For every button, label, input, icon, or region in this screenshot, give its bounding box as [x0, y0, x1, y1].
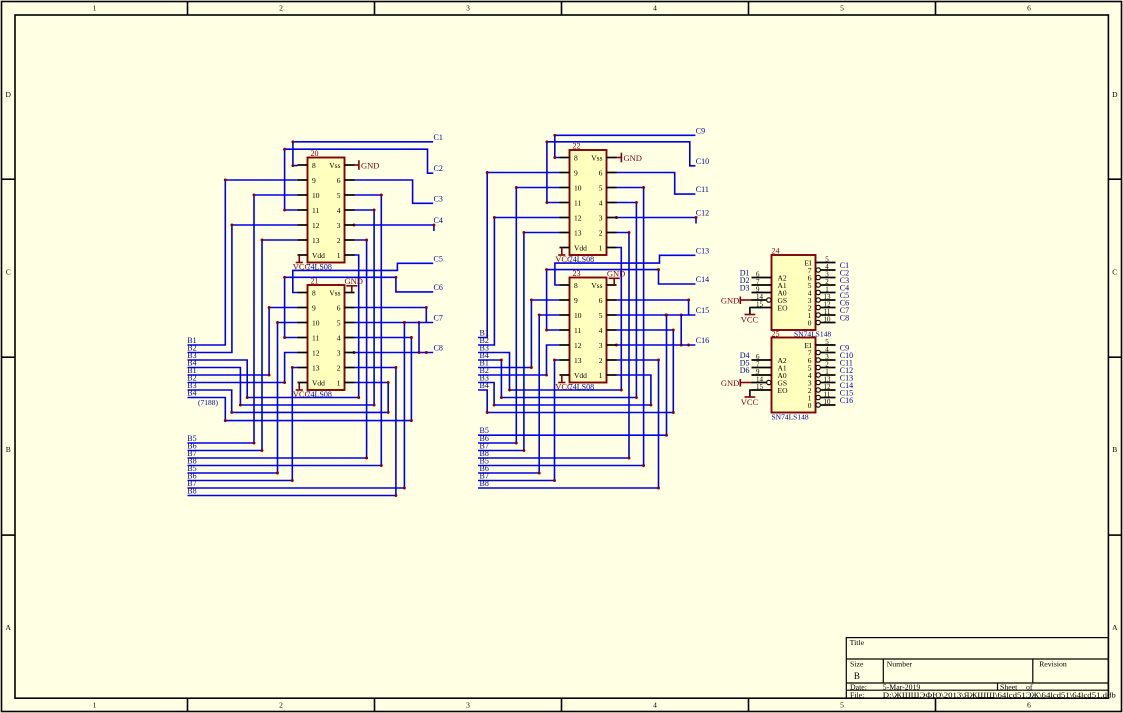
svg-text:5: 5 — [599, 184, 603, 193]
power port VCC at U25 EO — [741, 390, 759, 407]
svg-text:C10: C10 — [696, 157, 709, 166]
svg-text:9: 9 — [312, 304, 316, 313]
svg-text:22: 22 — [573, 142, 581, 151]
power port VCC at U20 Vdd — [293, 255, 311, 272]
IC U20 74LS08 (designator 20) — [298, 158, 355, 263]
svg-text:B: B — [6, 445, 11, 454]
wire net B2' to U21 pin 12 — [188, 353, 298, 384]
svg-text:23: 23 — [573, 269, 581, 278]
svg-text:2: 2 — [337, 236, 341, 245]
IC U23 74LS08 (designator 23) — [560, 278, 617, 383]
wire net B3' to U23 pin 1 — [478, 375, 652, 406]
svg-text:0: 0 — [808, 319, 812, 328]
wire net C4 from U20 pin 3 — [353, 224, 436, 231]
power port VCC at U22 Vdd — [555, 248, 573, 265]
svg-text:Vdd: Vdd — [574, 371, 587, 380]
wire net B4 to U22 pin 4 — [478, 201, 638, 399]
svg-text:12: 12 — [312, 221, 320, 230]
wire net C16 from U23 pin 3 — [615, 315, 695, 346]
svg-text:2: 2 — [279, 701, 283, 710]
svg-text:2: 2 — [279, 4, 283, 13]
svg-text:4: 4 — [337, 206, 341, 215]
svg-text:10: 10 — [574, 184, 582, 193]
wire net B1' to U23 pin 9 — [478, 299, 560, 369]
svg-text:C16: C16 — [696, 336, 709, 345]
svg-text:8: 8 — [574, 154, 578, 163]
svg-text:1: 1 — [93, 4, 97, 13]
IC U22 74LS08 (designator 22) — [560, 150, 617, 255]
power port VCC at U24 EO — [741, 308, 759, 325]
wire net B2 to U22 pin 12 — [478, 216, 560, 345]
wire net C9 from U22 pin 8 — [553, 134, 695, 159]
svg-text:Vss: Vss — [329, 161, 340, 170]
wire net C14 from U23 pin 11 — [545, 268, 695, 331]
svg-text:Vdd: Vdd — [574, 244, 587, 253]
svg-text:3: 3 — [599, 214, 603, 223]
svg-text:74LS08: 74LS08 — [307, 390, 332, 399]
svg-text:C8: C8 — [434, 344, 443, 353]
svg-text:25: 25 — [772, 330, 780, 339]
power port GND at U24 GS — [721, 296, 752, 306]
svg-text:5: 5 — [840, 701, 844, 710]
svg-text:C5: C5 — [434, 254, 443, 263]
svg-text:B: B — [1112, 445, 1117, 454]
svg-text:5: 5 — [840, 4, 844, 13]
wire net B5 to C15 node — [478, 314, 668, 437]
wire net B1 to U20 pin 9 — [188, 179, 298, 345]
svg-text:12: 12 — [574, 341, 582, 350]
svg-text:15: 15 — [756, 383, 764, 391]
svg-text:11: 11 — [574, 199, 581, 208]
wire net B2' to U23 pin 12 — [478, 345, 560, 376]
wire net C5 from U21 pin 8 — [293, 263, 433, 292]
svg-text:Revision: Revision — [1039, 660, 1067, 669]
svg-text:3: 3 — [337, 221, 341, 230]
svg-text:C8: C8 — [840, 314, 849, 323]
svg-text:6: 6 — [337, 176, 341, 185]
svg-text:6: 6 — [1027, 4, 1031, 13]
svg-text:EO: EO — [778, 304, 789, 313]
wire net B4 to U20 pin 4 — [188, 209, 376, 407]
power port GND at U23 Vss — [607, 269, 625, 285]
svg-text:1: 1 — [599, 244, 603, 253]
wire net C15 from U23 pins 6 and 5 — [617, 299, 696, 317]
svg-text:GND: GND — [361, 160, 379, 170]
wire net B5' to U21 pin 10 — [188, 321, 298, 474]
wire net B3' to U21 pin 1 — [188, 381, 390, 414]
svg-text:9: 9 — [312, 176, 316, 185]
svg-text:0: 0 — [808, 401, 812, 410]
svg-text:C: C — [6, 268, 11, 277]
svg-text:C1: C1 — [434, 133, 443, 142]
svg-text:2: 2 — [599, 229, 603, 238]
wire net B6 to U22 pin 10 — [478, 186, 560, 444]
svg-text:20: 20 — [311, 149, 319, 158]
wire net B5 to U20 pin 10 — [188, 194, 298, 445]
svg-text:D3: D3 — [740, 284, 750, 293]
encoder U24 SN74LS148 (designator 24) — [752, 255, 836, 330]
svg-text:12: 12 — [312, 349, 320, 358]
wire net C1 from U20 pin 8 — [291, 140, 433, 167]
wire net B5' to U22 pin 5 — [478, 186, 645, 467]
svg-text:Vss: Vss — [329, 289, 340, 298]
svg-text:13: 13 — [312, 364, 320, 373]
svg-text:C13: C13 — [696, 246, 709, 255]
svg-text:B4: B4 — [187, 389, 196, 398]
svg-text:10: 10 — [312, 319, 320, 328]
svg-text:File:: File: — [850, 690, 864, 699]
power port GND at U22 Vss — [617, 153, 642, 163]
wire net B7 to U20 pin 2 — [188, 239, 369, 460]
svg-text:4: 4 — [337, 334, 341, 343]
power port VCC at U21 Vdd — [293, 383, 311, 400]
wire net B7' to U23 pin 13 — [478, 359, 560, 482]
svg-text:D: D — [5, 90, 11, 99]
svg-text:8: 8 — [312, 289, 316, 298]
svg-text:11: 11 — [312, 334, 319, 343]
svg-text:8: 8 — [312, 161, 316, 170]
svg-text:C3: C3 — [434, 194, 443, 203]
svg-text:(7188): (7188) — [198, 398, 218, 407]
svg-text:11: 11 — [574, 326, 581, 335]
svg-text:3: 3 — [337, 349, 341, 358]
svg-text:VCC: VCC — [741, 314, 759, 324]
svg-text:B: B — [854, 671, 860, 681]
svg-text:5: 5 — [599, 311, 603, 320]
wire net B8' to U23 pin 2 — [478, 359, 660, 490]
svg-text:C6: C6 — [434, 283, 443, 292]
svg-text:24: 24 — [772, 247, 780, 256]
svg-text:C4: C4 — [434, 216, 443, 225]
svg-text:21: 21 — [311, 277, 319, 286]
svg-text:D: D — [1112, 90, 1118, 99]
svg-text:A: A — [5, 623, 11, 632]
svg-text:Vdd: Vdd — [312, 379, 325, 388]
power port VCC at U23 Vdd — [555, 375, 573, 392]
svg-text:6: 6 — [599, 169, 603, 178]
svg-text:2: 2 — [337, 364, 341, 373]
wire net C6 from U21 pin 11 — [283, 276, 433, 339]
svg-text:C: C — [1112, 268, 1117, 277]
svg-text:3: 3 — [466, 701, 470, 710]
svg-text:15: 15 — [756, 300, 764, 308]
svg-text:D:\ЖШЩЭФЮ\2013\ЯЖЩШ\64lcd51ЭЖ\: D:\ЖШЩЭФЮ\2013\ЯЖЩШ\64lcd51ЭЖ\64lcd51\64… — [883, 690, 1116, 699]
wire net B4' to U23 pin 4 — [478, 329, 675, 414]
svg-text:B8: B8 — [480, 479, 489, 488]
wire net B3 to U22 pin 1 — [478, 248, 623, 392]
svg-text:D6: D6 — [740, 366, 750, 375]
svg-text:6: 6 — [599, 296, 603, 305]
wire net C10 from U22 pin 11 — [545, 140, 695, 204]
svg-text:10: 10 — [312, 191, 320, 200]
wire net B6' to U21 pin 13 — [188, 366, 298, 482]
power port GND at U25 GS — [721, 378, 752, 388]
svg-text:9: 9 — [574, 296, 578, 305]
svg-text:4: 4 — [599, 199, 603, 208]
svg-text:12: 12 — [574, 214, 582, 223]
wire net C11 from U22 pin 6 — [617, 173, 696, 195]
svg-text:A: A — [1112, 623, 1118, 632]
svg-text:Vss: Vss — [591, 154, 602, 163]
svg-text:C16: C16 — [840, 396, 853, 405]
wire net B8' to U21 pin 2 — [188, 366, 398, 497]
svg-text:4: 4 — [599, 326, 603, 335]
svg-text:C14: C14 — [696, 275, 709, 284]
wire net B3 to U20 pin 1 — [188, 255, 361, 399]
wire net B6 to U20 pin 13 — [188, 239, 298, 452]
svg-text:11: 11 — [312, 206, 319, 215]
svg-text:GND: GND — [607, 269, 625, 279]
wire net B8 to U22 pin 2 — [478, 231, 630, 459]
wire net C8 from U21 pin 3 — [353, 323, 434, 354]
wire net C3 from U20 pin 6 — [354, 180, 433, 203]
svg-text:C11: C11 — [696, 185, 709, 194]
svg-text:C7: C7 — [434, 314, 443, 323]
IC U21 74LS08 (designator 21) — [298, 285, 355, 390]
wire net B1' to U21 pin 9 — [188, 306, 298, 376]
svg-text:13: 13 — [574, 229, 582, 238]
svg-text:74LS08: 74LS08 — [569, 255, 594, 264]
wire net C2 from U20 pin 11 — [283, 148, 433, 212]
svg-text:Vss: Vss — [591, 281, 602, 290]
svg-text:Title: Title — [850, 638, 865, 647]
svg-text:GND: GND — [624, 153, 642, 163]
title block — [846, 638, 1108, 699]
svg-text:GND: GND — [721, 378, 739, 388]
svg-text:74LS08: 74LS08 — [307, 263, 332, 272]
svg-text:B4: B4 — [480, 381, 489, 390]
svg-text:Size: Size — [850, 660, 864, 669]
svg-text:C15: C15 — [696, 306, 709, 315]
svg-text:10: 10 — [574, 311, 582, 320]
svg-text:13: 13 — [574, 356, 582, 365]
encoder U25 SN74LS148 (designator 25) — [752, 338, 836, 413]
wire net B6' to U23 pin 10 — [478, 314, 560, 475]
svg-text:VCC: VCC — [741, 397, 759, 407]
svg-text:1: 1 — [337, 379, 341, 388]
wire net B2 to U20 pin 12 — [188, 224, 298, 353]
svg-text:2: 2 — [599, 356, 603, 365]
svg-text:3: 3 — [599, 341, 603, 350]
svg-text:EO: EO — [778, 386, 789, 395]
wire net C12 from U22 pin 3 — [615, 216, 697, 223]
svg-text:10: 10 — [824, 398, 832, 406]
wire net B1 to U22 pin 9 — [478, 171, 560, 337]
svg-text:C12: C12 — [696, 209, 709, 218]
svg-text:Vdd: Vdd — [312, 251, 325, 260]
svg-text:74LS08: 74LS08 — [569, 383, 594, 392]
svg-text:4: 4 — [653, 701, 657, 710]
svg-text:B8: B8 — [187, 487, 196, 496]
wire net B7' to C7 node — [188, 321, 406, 489]
svg-text:4: 4 — [653, 4, 657, 13]
power port GND at U20 Vss — [354, 160, 379, 170]
svg-text:C9: C9 — [696, 126, 705, 135]
svg-text:6: 6 — [337, 304, 341, 313]
wire net B8 to U20 pin 5 — [188, 194, 383, 467]
svg-text:9: 9 — [574, 169, 578, 178]
wire net C13 from U23 pin 8 — [555, 255, 696, 285]
svg-text:1: 1 — [599, 371, 603, 380]
svg-text:Number: Number — [887, 660, 913, 669]
wire net B7 to U22 pin 13 — [478, 231, 560, 452]
svg-text:5: 5 — [337, 191, 341, 200]
svg-text:13: 13 — [312, 236, 320, 245]
wire net B4' to U21 pin 4 — [188, 336, 413, 422]
svg-text:10: 10 — [824, 315, 832, 323]
svg-text:SN74LS148: SN74LS148 — [772, 413, 809, 422]
power port GND at U21 Vss — [345, 276, 363, 292]
svg-text:6: 6 — [1027, 701, 1031, 710]
svg-text:1: 1 — [337, 251, 341, 260]
svg-text:1: 1 — [93, 701, 97, 710]
svg-text:8: 8 — [574, 281, 578, 290]
svg-text:GND: GND — [721, 296, 739, 306]
wire net C7 from U21 pins 6 and 5 — [354, 306, 433, 324]
svg-text:C2: C2 — [434, 164, 443, 173]
svg-text:3: 3 — [466, 4, 470, 13]
svg-text:GND: GND — [345, 276, 363, 286]
svg-text:5: 5 — [337, 319, 341, 328]
